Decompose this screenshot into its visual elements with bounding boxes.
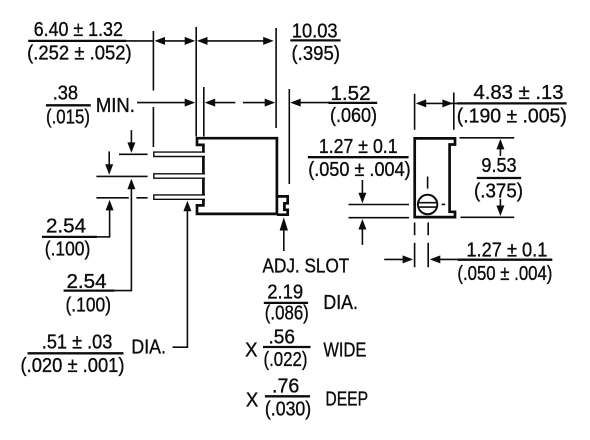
svg-text:(.060): (.060) [330,104,377,127]
label .51 +/- .03 DIA [21,331,166,377]
extension line: pin 1 centerline [119,153,148,155]
extension line: body left edge [195,27,197,137]
pin 3 [154,195,205,199]
pin 1 [154,152,205,156]
dimension 9.53 label and arrows [474,139,523,216]
dimension 1.27 (screw to bottom) label and arrows [308,135,411,245]
label 2.54/(.100) first [42,214,110,260]
dimension 10.03 label [290,19,340,65]
svg-text:DIA.: DIA. [323,291,358,314]
screw slot lines [418,203,437,207]
pin 2 [154,174,205,178]
dimension 2.54 (pin1-pin2) up arrow with long shaft [127,179,135,291]
svg-text:10.03: 10.03 [292,19,338,42]
dimension 2.54 (pin2-pin3) down arrow [105,151,113,174]
svg-text:1.52: 1.52 [331,82,371,105]
label X .56/(.022) WIDE [245,326,366,372]
dimension 6.40 +/- 1.32 label [27,18,153,64]
dimension 1.27 (screw to bottom) extension lines [349,205,410,218]
svg-text:(.252 ± .052): (.252 ± .052) [27,41,132,64]
screw horizontal centerline dash [442,203,446,205]
screw vertical centerline [427,177,429,189]
svg-text:X: X [246,389,259,412]
svg-text:MIN.: MIN. [96,94,135,117]
svg-text:.76: .76 [272,375,299,398]
adjustment screw circle [418,195,437,214]
svg-text:(.190 ± .005): (.190 ± .005) [457,104,567,127]
svg-text:DEEP: DEEP [325,388,368,411]
extension line: pin tips [152,31,154,147]
svg-text:4.83 ± .13: 4.83 ± .13 [474,81,564,104]
svg-text:(.050 ± .004): (.050 ± .004) [308,158,411,181]
svg-text:1.27 ± 0.1: 1.27 ± 0.1 [466,238,547,261]
leader arrow to adjustment slot boss [280,217,288,251]
extension line: body right edge [275,28,277,128]
svg-text:(.375): (.375) [474,179,523,202]
svg-text:(.086): (.086) [265,302,309,325]
extension line: pin 2 centerline [96,175,147,177]
svg-text:DIA.: DIA. [131,336,166,359]
dimension 6.40 arrows [155,37,196,45]
extension line: pin 3 centerline [96,197,147,199]
svg-text:.56: .56 [269,326,296,349]
svg-text:X: X [245,339,258,362]
svg-text:1.27 ± 0.1: 1.27 ± 0.1 [319,135,398,158]
label 2.19/(.086) DIA. [264,280,358,324]
svg-text:9.53: 9.53 [481,154,516,177]
svg-text:.51 ± .03: .51 ± .03 [42,331,113,354]
svg-text:.38: .38 [53,82,78,105]
svg-text:(.395): (.395) [292,42,341,65]
dimension 1.27 (left face to screw) label and arrows [384,238,552,284]
svg-text:2.19: 2.19 [267,280,303,303]
svg-text:(.020 ± .001): (.020 ± .001) [21,354,125,377]
svg-text:WIDE: WIDE [323,339,366,362]
svg-text:(.100): (.100) [66,293,112,316]
dimension 4.83 extension lines [415,93,454,130]
svg-text:ADJ. SLOT: ADJ. SLOT [263,254,350,277]
svg-text:(.030): (.030) [265,397,311,420]
svg-text:6.40 ± 1.32: 6.40 ± 1.32 [34,18,123,41]
extension line: slot boss right edge [288,89,290,184]
dimension 10.03 arrows [197,37,274,45]
svg-text:(.015): (.015) [46,105,90,128]
dimension 1.52 label [328,82,377,127]
side-slot boss on front view right edge [277,196,288,214]
dimension 1.52 arrows [243,99,331,107]
dimension 1.27 (left face to screw) extension dashes [415,223,429,268]
dimension 2.54 (pin1-pin2) down arrow [127,130,135,153]
dimension 4.83 label and line [416,81,567,127]
svg-text:(.022): (.022) [264,348,308,371]
svg-text:(.100): (.100) [45,238,91,261]
side view body outline [415,138,455,217]
dimension 9.53 extension lines [460,138,515,218]
dimension .38 MIN label [46,82,135,129]
extension line: body inset edge [203,87,205,137]
leader from DIA to pin 3 [173,201,192,348]
label X .76/(.030) DEEP [246,375,368,421]
label 2.54/(.100) second [64,270,133,316]
dimension .38 leader and arrows [137,99,235,107]
dimension 2.54 (pin2-pin3) up arrow with leader [106,200,114,237]
svg-text:(.050 ± .004): (.050 ± .004) [457,262,552,285]
front view body outline [197,138,277,214]
svg-text:2.54: 2.54 [46,214,86,237]
